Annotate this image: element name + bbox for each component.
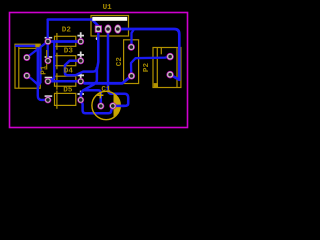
drill cross above D2 cathode pad	[77, 32, 84, 39]
wire U1 pin1 vertical down to band	[94, 29, 98, 83]
svg-text:D5: D5	[63, 87, 73, 95]
silk line beside P1 label	[46, 50, 48, 70]
U1 tab bar	[92, 17, 127, 21]
pad D4.A	[45, 78, 51, 84]
wire C1 negative stub over crescent	[113, 105, 124, 108]
pad U1.2	[105, 25, 111, 34]
connector P1 outline	[15, 44, 40, 88]
wire U1 pin3 to P2 bottom pad	[118, 29, 180, 80]
diode D3 body	[55, 53, 76, 70]
wire stub in P1 top, down right side to D5 anode pad	[16, 46, 48, 100]
drill cross above D4 cathode pad	[77, 72, 84, 79]
pad U1.3	[115, 25, 121, 34]
wire C2 top pad stub	[132, 30, 134, 48]
capacitor C1 outline	[92, 91, 120, 119]
pad D3.K	[78, 58, 84, 64]
board outline	[10, 13, 188, 128]
wire branch to C1 positive pad	[85, 90, 101, 106]
wire band D4 cathode pad to C2 bottom pad	[81, 76, 132, 83]
diode D4 body	[55, 73, 76, 90]
drill bar above D5 anode pad	[45, 95, 53, 97]
wire branch to D5 cathode pad	[81, 84, 94, 100]
pad D3.A	[45, 58, 51, 64]
capacitor C2 outline	[124, 40, 139, 84]
pad P1.2	[24, 73, 30, 79]
regulator U1 outline	[91, 16, 129, 37]
pad P1.1	[24, 54, 30, 60]
svg-text:D2: D2	[62, 26, 72, 34]
wire bypass column to D4 anode pad	[48, 42, 54, 82]
drill bar above D4 anode pad	[45, 77, 53, 79]
wire D3 cathode pad to main junction	[65, 61, 97, 75]
drill cross above D5 cathode pad	[77, 91, 84, 98]
pad C1 negative	[110, 103, 116, 109]
pad C2.1	[128, 44, 135, 51]
pad U1.1	[95, 26, 102, 33]
pad C1 positive	[98, 103, 104, 109]
pad P2.2	[167, 71, 174, 78]
pad D2.A	[45, 38, 51, 44]
pad C2.2	[128, 73, 135, 80]
wire C1 negative pad to U1 pin2	[108, 29, 128, 106]
svg-text:P1: P1	[40, 65, 48, 75]
diode D5 body	[55, 91, 76, 109]
drill cross above D3 cathode pad	[77, 52, 84, 59]
P1 pin1 notch	[35, 44, 39, 47]
wire left column vertical	[47, 20, 49, 61]
wire through D2 body	[48, 40, 81, 43]
pad P2.1	[167, 53, 174, 60]
svg-text:C2: C2	[116, 57, 124, 67]
pad D4.K	[78, 78, 84, 84]
P2 pin1 notch	[154, 83, 158, 87]
pad D5.A	[45, 97, 51, 103]
wire C2 bottom pad to P2 top pad	[131, 57, 170, 76]
wire D5 cathode loop to C1 negative pad	[81, 100, 113, 113]
wire through D4 body	[48, 80, 81, 83]
drill bar above D2 anode pad	[45, 37, 53, 39]
C1 polarity crescent	[114, 93, 121, 117]
svg-text:C1: C1	[101, 86, 111, 94]
wire parallel vertical from P1.1 diagonal	[38, 47, 40, 85]
diode D2 body	[55, 33, 76, 50]
C1 plus mark	[97, 92, 103, 98]
svg-text:D3: D3	[64, 48, 74, 56]
wire P1.1 to D2 anode (diagonal)	[27, 42, 48, 58]
pad D5.K	[78, 97, 84, 103]
drill mark under U1 pin1	[96, 37, 99, 40]
drill bar above D3 anode pad	[45, 56, 53, 58]
svg-text:U1: U1	[103, 4, 113, 12]
svg-text:P2: P2	[143, 63, 151, 73]
svg-text:D4: D4	[64, 67, 74, 75]
connector P2 outline	[153, 48, 181, 88]
wire P1.2 diagonal joining vertical	[27, 76, 38, 85]
pad D2.K	[78, 38, 84, 44]
wire top horizontal to U1 pin1	[48, 20, 99, 30]
